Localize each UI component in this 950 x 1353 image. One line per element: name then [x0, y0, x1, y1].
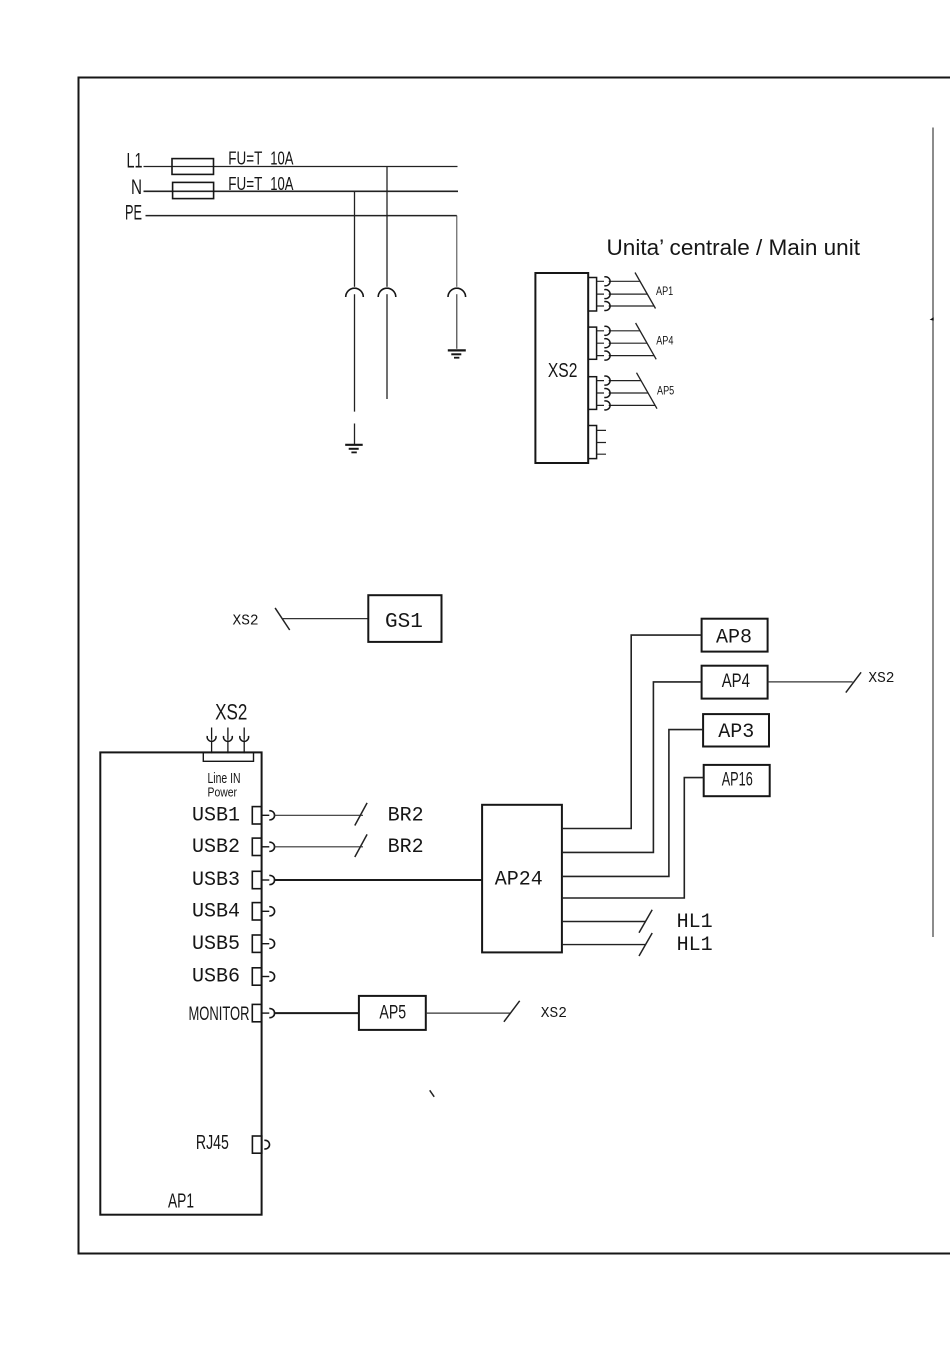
connector XS2 body	[535, 273, 588, 463]
svg-text:Unita’ centrale / Main unit: Unita’ centrale / Main unit	[607, 235, 861, 260]
wire L1 rail	[144, 166, 458, 168]
ground symbol (PE drop)	[448, 350, 466, 357]
XS2 plug pin 2	[223, 728, 232, 754]
svg-text:XS2: XS2	[868, 671, 894, 687]
margin tick	[930, 317, 934, 320]
XS2 group3 pin c	[597, 404, 655, 406]
wire AP5 to XS2	[426, 1012, 511, 1014]
svg-text:USB2: USB2	[192, 836, 240, 859]
wire N drop lower	[354, 294, 356, 444]
block AP16	[704, 765, 770, 796]
socket contact on L1 drop	[378, 288, 396, 297]
svg-text:XS2: XS2	[548, 360, 578, 382]
frame border top	[78, 77, 950, 79]
cable slash AP5 group	[637, 373, 658, 409]
XS2 group3 pin a	[597, 380, 641, 382]
port USB1 connector	[252, 807, 274, 824]
cable slash BR2 a	[355, 803, 367, 826]
svg-text:AP4: AP4	[722, 671, 751, 692]
wire AP24 to AP8	[562, 635, 702, 828]
sheet margin line	[932, 128, 934, 938]
wire USB2 to BR2	[274, 846, 363, 848]
svg-text:USB3: USB3	[192, 869, 240, 892]
cable slash at AP5/XS2	[504, 1001, 520, 1022]
wire AP24 HL1 b	[562, 944, 646, 946]
XS2 group1 pin a	[597, 280, 640, 282]
svg-text:AP8: AP8	[716, 626, 752, 649]
block AP3	[703, 714, 769, 746]
svg-text:AP1: AP1	[656, 286, 673, 298]
XS2 group2 pin c	[597, 355, 655, 357]
stray tick mark	[430, 1090, 435, 1097]
svg-text:10A: 10A	[270, 174, 293, 194]
wire L1 drop upper	[386, 167, 388, 287]
wire L1 drop lower	[386, 294, 388, 399]
svg-text:HL1: HL1	[677, 934, 713, 957]
wire USB1 to BR2	[274, 814, 363, 816]
svg-text:10A: 10A	[270, 149, 293, 169]
frame border left	[78, 77, 80, 1255]
wire PE drop lower	[456, 294, 458, 349]
svg-text:PE: PE	[125, 202, 142, 225]
port USB3 connector	[252, 871, 274, 888]
wire AP4 to XS2	[768, 681, 853, 683]
svg-text:BR2: BR2	[388, 836, 424, 859]
cable slash at XS2/GS1	[275, 608, 290, 630]
XS2 group1 pin c	[597, 305, 654, 307]
XS2 plug pin 3	[240, 728, 249, 754]
XS2 group2 pin a	[597, 330, 640, 332]
wire AP24 to AP4	[562, 682, 702, 853]
svg-text:AP5: AP5	[657, 385, 674, 397]
svg-text:N: N	[131, 176, 142, 199]
cable slash HL1 b	[639, 933, 652, 956]
Line IN power inlet	[203, 752, 253, 761]
svg-text:AP16: AP16	[722, 770, 753, 791]
svg-text:BR2: BR2	[388, 805, 424, 828]
block GS1	[368, 595, 441, 642]
svg-text:USB4: USB4	[192, 901, 240, 924]
XS2 pin group 4 shell	[588, 426, 596, 459]
fuse FU 1	[172, 159, 214, 175]
svg-text:L1: L1	[127, 150, 143, 173]
XS2 group4 pin stubs	[597, 430, 606, 454]
svg-text:RJ45: RJ45	[196, 1132, 229, 1154]
wire N drop upper	[354, 191, 356, 286]
XS2 group2 pin b	[597, 342, 648, 344]
socket contact on PE drop	[448, 288, 466, 297]
port USB6 connector	[252, 968, 274, 985]
svg-text:MONITOR: MONITOR	[189, 1004, 250, 1025]
port USB4 connector	[252, 903, 274, 920]
block AP5	[359, 996, 426, 1030]
svg-text:GS1: GS1	[385, 611, 423, 634]
cable slash at AP4/XS2	[846, 672, 861, 692]
XS2 group1 pin b	[597, 293, 648, 295]
svg-text:Power: Power	[208, 784, 238, 799]
wire XS2 to GS1	[282, 618, 368, 620]
port RJ45 connector	[252, 1136, 269, 1153]
socket contact on N drop	[346, 288, 364, 297]
svg-text:XS2: XS2	[215, 700, 247, 725]
svg-text:AP1: AP1	[168, 1190, 194, 1212]
wire USB3 to AP24	[274, 879, 482, 881]
svg-text:FU=T: FU=T	[228, 174, 262, 194]
svg-text:XS2: XS2	[233, 614, 259, 630]
svg-text:USB6: USB6	[192, 966, 240, 989]
wire AP24 to AP16	[562, 778, 704, 898]
port USB2 connector	[252, 838, 274, 855]
wire N rail	[144, 190, 459, 192]
fuse FU 2	[173, 182, 214, 198]
block AP1 (computer)	[100, 752, 261, 1214]
wire PE rail	[146, 215, 457, 217]
svg-text:AP3: AP3	[718, 721, 754, 744]
svg-text:HL1: HL1	[677, 911, 713, 934]
port MONITOR connector	[252, 1004, 274, 1021]
svg-text:XS2: XS2	[541, 1006, 567, 1022]
wire AP24 to AP3	[562, 730, 703, 877]
XS2 pin group 1 shell	[588, 278, 596, 312]
wire PE drop upper	[456, 216, 458, 287]
XS2 group3 pin b	[597, 392, 648, 394]
port USB5 connector	[252, 935, 274, 952]
XS2 plug pin 1	[207, 728, 216, 754]
block AP4	[702, 666, 768, 699]
XS2 pin group 3 shell	[588, 377, 596, 410]
svg-text:AP4: AP4	[656, 336, 674, 348]
wire MONITOR to AP5	[274, 1012, 359, 1014]
cable slash AP1 group	[635, 273, 656, 309]
wire AP24 HL1 a	[562, 921, 646, 923]
svg-text:USB1: USB1	[192, 805, 240, 828]
svg-text:USB5: USB5	[192, 933, 240, 956]
svg-text:AP24: AP24	[495, 868, 543, 891]
ground symbol (N drop)	[345, 445, 363, 453]
svg-text:FU=T: FU=T	[228, 149, 262, 169]
svg-text:AP5: AP5	[379, 1002, 406, 1023]
block AP8	[702, 619, 768, 652]
XS2 pin group 2 shell	[588, 327, 596, 359]
block AP24	[482, 805, 562, 953]
frame border bottom	[78, 1253, 950, 1255]
cable slash BR2 b	[355, 834, 367, 857]
cable slash AP4 group	[636, 323, 657, 359]
cable slash HL1 a	[639, 910, 652, 933]
